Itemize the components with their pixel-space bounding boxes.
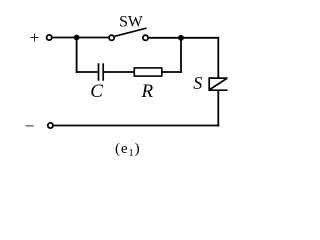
- svg-text:SW: SW: [119, 14, 143, 31]
- switch SW label: [119, 14, 143, 31]
- terminal circle bottom-left: [48, 123, 53, 128]
- wire bottom horizontal: [53, 125, 219, 127]
- wire capacitor to resistor: [104, 71, 134, 73]
- wire right vertical upper: [217, 37, 219, 78]
- wire resistor to node B: [162, 71, 182, 73]
- svg-text:S: S: [193, 73, 202, 93]
- resistor R label: [140, 81, 153, 102]
- resistor R box: [134, 68, 162, 76]
- switch SW right contact circle: [143, 35, 148, 40]
- device S symbol: [209, 77, 228, 91]
- capacitor C plates: [99, 63, 104, 80]
- switch SW left contact circle: [109, 35, 114, 40]
- minus terminal label: [25, 116, 35, 135]
- wire node A down: [76, 38, 78, 73]
- figure label (e1): [115, 141, 141, 159]
- svg-text:−: −: [25, 116, 35, 135]
- plus terminal label: [30, 28, 40, 47]
- svg-text:C: C: [90, 81, 103, 102]
- wire switch to node B: [148, 37, 219, 39]
- svg-text:R: R: [140, 81, 153, 102]
- node A junction dot: [74, 35, 80, 41]
- switch SW blade: [115, 28, 147, 36]
- terminal circle top-left: [47, 35, 52, 40]
- capacitor C label: [90, 81, 103, 102]
- wire branch left horizontal: [76, 71, 98, 73]
- node B junction dot: [178, 35, 184, 41]
- svg-text:+: +: [30, 28, 40, 47]
- wire node B down: [180, 38, 182, 73]
- device S label: [193, 73, 202, 93]
- wire top-left horizontal: [52, 37, 109, 39]
- svg-text:(e1): (e1): [115, 141, 141, 159]
- wire right vertical lower: [217, 90, 219, 126]
